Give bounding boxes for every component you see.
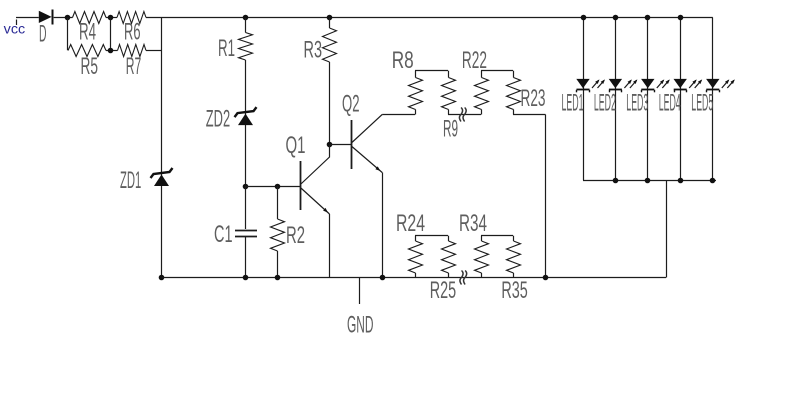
junction LED4 bottom bbox=[678, 178, 684, 184]
resistor R24 bbox=[396, 210, 425, 278]
resistor R7 bbox=[118, 45, 147, 81]
node B junction bbox=[108, 15, 114, 21]
zener ZD2 bbox=[206, 106, 257, 133]
svg-text:R25: R25 bbox=[430, 277, 456, 304]
junction bottom-left bbox=[159, 275, 165, 281]
node C junction bbox=[108, 18, 114, 54]
resistor R6 bbox=[117, 12, 146, 46]
wire bottom rail to LED bus bbox=[666, 180, 668, 277]
wire LED bottom bus bbox=[583, 180, 716, 182]
node R1 top bbox=[243, 15, 249, 21]
wire diode to node A bbox=[54, 17, 73, 19]
node R3 top bbox=[327, 15, 333, 21]
junction R2 bottom bbox=[275, 275, 281, 281]
svg-text:LED2: LED2 bbox=[594, 90, 616, 117]
wire R24-R25 top bar bbox=[415, 235, 448, 237]
resistor R8 bbox=[392, 47, 423, 115]
wire R7 right bbox=[146, 50, 162, 52]
wire Q2 base bbox=[330, 144, 352, 146]
svg-text:LED1: LED1 bbox=[562, 90, 584, 117]
wire bottom rail bbox=[162, 277, 667, 279]
capacitor C1 bbox=[214, 186, 257, 278]
junction right branch bottom bbox=[543, 275, 549, 281]
svg-text:R4: R4 bbox=[79, 19, 96, 46]
resistor R1 bbox=[218, 33, 253, 63]
diode D bbox=[39, 10, 53, 48]
LED LED1 bbox=[562, 18, 606, 181]
svg-text:R3: R3 bbox=[304, 37, 323, 64]
resistor R3 bbox=[304, 18, 337, 64]
junction LED3 top bbox=[645, 15, 651, 21]
wire Q2 collector to R8 bbox=[382, 114, 415, 116]
resistor R22 bbox=[462, 47, 489, 115]
junction LED3 bottom bbox=[645, 178, 651, 184]
svg-text:R1: R1 bbox=[218, 35, 235, 62]
svg-text:R7: R7 bbox=[126, 53, 142, 80]
svg-text:LED3: LED3 bbox=[626, 90, 648, 117]
svg-text:R22: R22 bbox=[462, 47, 487, 74]
svg-text:R6: R6 bbox=[124, 19, 141, 46]
resistor R5 bbox=[68, 45, 106, 81]
wire Q2 emitter down bbox=[382, 173, 384, 278]
svg-text:R23: R23 bbox=[521, 85, 546, 112]
node Q2 base junction bbox=[327, 142, 333, 148]
svg-text:R34: R34 bbox=[459, 210, 487, 237]
svg-text:ZD2: ZD2 bbox=[206, 106, 230, 133]
ground GND bbox=[347, 278, 374, 339]
junction LED5 bottom bbox=[710, 178, 716, 184]
svg-text:R2: R2 bbox=[286, 222, 305, 249]
LED LED3 bbox=[626, 18, 670, 181]
svg-text:R35: R35 bbox=[501, 277, 527, 304]
zener ZD1 bbox=[120, 167, 173, 194]
junction LED4 top bbox=[678, 15, 684, 21]
wire R5 to node C bbox=[106, 50, 118, 52]
resistor R35 bbox=[501, 236, 527, 304]
wire base net bbox=[246, 186, 301, 188]
wire node A down bbox=[67, 18, 69, 51]
wire R23 to right branch bbox=[513, 114, 546, 116]
wire vcc to diode bbox=[16, 17, 39, 19]
svg-text:vcc: vcc bbox=[4, 21, 26, 37]
wire R9 to R22 with break mark bbox=[448, 108, 481, 122]
svg-text:Q1: Q1 bbox=[286, 132, 306, 159]
junction LED2 top bbox=[613, 15, 619, 21]
node D1 junction bbox=[243, 184, 249, 190]
junction Q2 emitter bottom bbox=[380, 275, 386, 281]
wire Q1 emitter down bbox=[329, 214, 331, 278]
junction LED1 top bbox=[581, 15, 587, 21]
svg-text:ZD1: ZD1 bbox=[120, 167, 141, 194]
svg-text:D: D bbox=[39, 21, 47, 48]
wire R4 to node B bbox=[106, 17, 117, 19]
svg-text:GND: GND bbox=[347, 312, 374, 339]
wire R1 lead bbox=[245, 18, 247, 33]
junction C1 bottom bbox=[243, 275, 249, 281]
wire top rail bbox=[146, 17, 713, 19]
transistor Q2 bbox=[342, 91, 382, 173]
wire R3 down bbox=[329, 62, 331, 145]
node A junction bbox=[65, 15, 71, 21]
svg-text:R24: R24 bbox=[396, 210, 425, 237]
resistor R23 bbox=[507, 71, 546, 115]
resistor R25 bbox=[430, 236, 456, 304]
resistor R9 bbox=[442, 71, 459, 143]
svg-text:LED4: LED4 bbox=[659, 90, 681, 117]
LED LED4 bbox=[659, 18, 703, 181]
LED LED5 bbox=[691, 18, 735, 181]
wire R8-R9 top bar bbox=[415, 70, 448, 72]
resistor R34 bbox=[459, 210, 489, 278]
LED LED2 bbox=[594, 18, 638, 181]
wire R22-R23 top bar bbox=[481, 70, 513, 72]
wire right branch down bbox=[545, 115, 547, 278]
transistor Q1 bbox=[286, 132, 330, 214]
svg-text:LED5: LED5 bbox=[691, 90, 713, 117]
wire left branch down bbox=[161, 18, 163, 278]
break mark lower bbox=[460, 271, 467, 285]
wire R34-R35 top bar bbox=[481, 235, 513, 237]
resistor R4 bbox=[73, 12, 107, 46]
resistor R2 bbox=[271, 186, 306, 278]
node VCC power symbol bbox=[4, 20, 26, 37]
svg-text:R9: R9 bbox=[443, 116, 458, 143]
wire R1 to ZD2 bbox=[245, 60, 247, 186]
svg-text:C1: C1 bbox=[214, 221, 233, 248]
svg-text:Q2: Q2 bbox=[342, 91, 360, 118]
svg-text:R5: R5 bbox=[81, 53, 99, 80]
node R2 top junction bbox=[275, 184, 281, 190]
junction LED2 bottom bbox=[613, 178, 619, 184]
svg-text:R8: R8 bbox=[392, 47, 414, 74]
